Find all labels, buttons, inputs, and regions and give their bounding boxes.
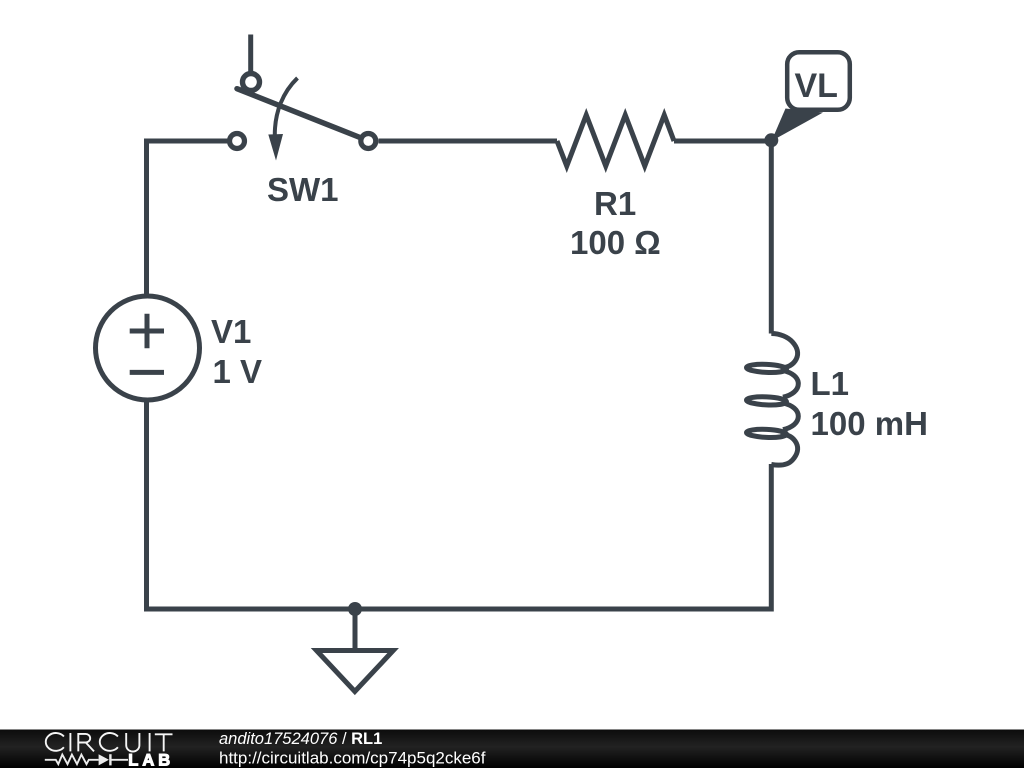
switch SW1: [230, 35, 376, 209]
inductor L1 top bump: [771, 334, 797, 369]
logo CIRCUIT lettering: [46, 733, 173, 751]
probe VL pointer wedge: [772, 109, 824, 142]
ground triangle: [317, 651, 394, 692]
svg-text:LAB: LAB: [128, 751, 174, 768]
resistor R1: [557, 115, 674, 261]
resistor R1 zigzag: [557, 115, 674, 166]
svg-text:http://circuitlab.com/cp74p5q2: http://circuitlab.com/cp74p5q2cke6f: [219, 749, 486, 768]
voltage source V1 plus sign: [130, 314, 164, 348]
svg-text:V1: V1: [211, 313, 251, 350]
footer bar: [0, 730, 1024, 768]
logo diode triangle: [99, 754, 109, 765]
svg-text:100 mH: 100 mH: [811, 405, 928, 442]
logo resistor-diode squiggle: [45, 754, 128, 765]
switch SW1 actuation arrow arc: [275, 78, 298, 136]
switch SW1 right terminal circle: [361, 134, 376, 149]
wire V1 bottom to bottom rail: [144, 400, 149, 609]
svg-text:L1: L1: [811, 365, 850, 402]
wire node VL down to inductor top: [769, 141, 774, 334]
probe VL box: [787, 52, 850, 110]
ground stub: [353, 609, 358, 648]
inductor L1 loop 3: [746, 429, 786, 439]
switch SW1 top terminal circle: [243, 74, 260, 91]
svg-text:1 V: 1 V: [213, 353, 263, 390]
ground node junction dot: [348, 602, 362, 616]
inductor L1 loop 1: [746, 364, 786, 374]
switch SW1 blade: [237, 89, 360, 138]
switch SW1 left terminal circle: [230, 134, 245, 149]
voltage source V1 minus sign: [130, 370, 164, 375]
inductor L1 loop 2: [746, 396, 786, 406]
node VL junction dot: [764, 133, 778, 147]
svg-text:VL: VL: [795, 67, 838, 105]
svg-text:R1: R1: [594, 185, 636, 222]
svg-text:100 Ω: 100 Ω: [570, 224, 661, 261]
svg-text:SW1: SW1: [267, 171, 339, 208]
voltage source V1: [96, 296, 263, 400]
inductor L1 bottom bump: [771, 434, 797, 466]
voltage source V1 circle: [96, 296, 200, 400]
svg-text:andito17524076 / RL1: andito17524076 / RL1: [219, 730, 382, 748]
wire switch right terminal to resistor: [379, 139, 558, 144]
inductor L1 bump 2: [783, 371, 798, 398]
switch SW1 top stub: [248, 35, 253, 73]
wire bottom rail: [144, 607, 774, 612]
wire top-left corner to switch left terminal: [144, 139, 228, 144]
wire inductor bottom to bottom-right corner: [769, 464, 774, 607]
inductor L1 bump 3: [783, 403, 798, 430]
wire left vertical (V1 branch): [144, 144, 149, 297]
switch SW1 arrow head: [268, 134, 283, 161]
inductor L1: [746, 334, 798, 466]
wire resistor to node VL: [674, 139, 771, 144]
